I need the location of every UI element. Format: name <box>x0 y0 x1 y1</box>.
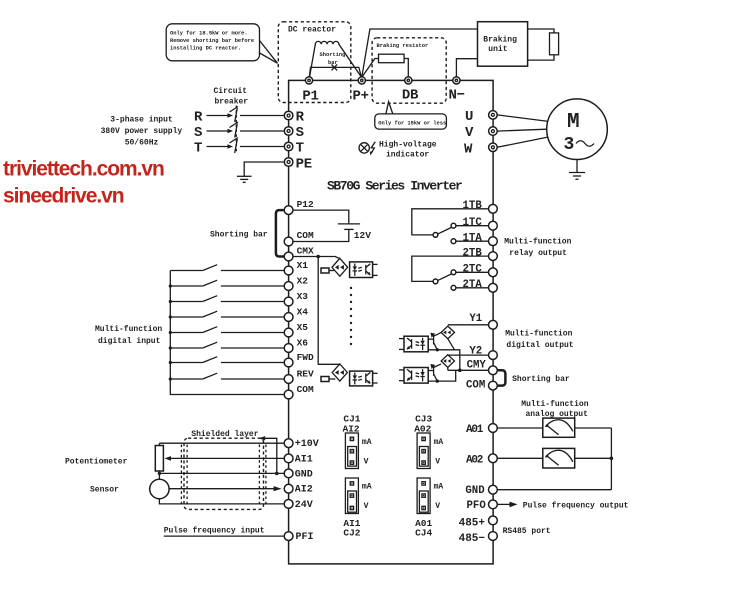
rectifier diamond Y1 <box>441 326 454 339</box>
terminal P1 <box>305 77 312 84</box>
label COM input <box>297 384 314 395</box>
terminal X1 <box>284 266 293 275</box>
svg-text:mA: mA <box>434 438 444 447</box>
rectifier diamond Y2 <box>441 355 454 368</box>
wire CMY row <box>448 369 489 371</box>
label 2TC <box>463 264 483 276</box>
junction Y2 emitter <box>436 379 439 382</box>
svg-text:X6: X6 <box>297 338 309 349</box>
svg-text:triviettech.com.vn: triviettech.com.vn <box>3 158 164 181</box>
terminal CMX <box>284 252 293 261</box>
terminal R <box>284 111 293 120</box>
wire GND return <box>497 489 611 491</box>
svg-text:485−: 485− <box>459 533 486 545</box>
svg-text:Only for 18.5kW or more.: Only for 18.5kW or more. <box>170 30 248 36</box>
terminal Y1 <box>489 320 498 329</box>
label Potentiometer <box>65 458 128 467</box>
label V <box>465 125 474 141</box>
label P+ <box>353 89 369 105</box>
svg-text:GND: GND <box>295 469 313 480</box>
pin stubs optocoupler Y2 <box>399 370 404 381</box>
terminal 485- <box>489 532 498 541</box>
terminal 1TA <box>489 237 498 246</box>
label 2TA <box>463 279 483 291</box>
shield dashed box <box>184 438 264 509</box>
wire P12 to battery <box>293 210 349 224</box>
svg-text:bar: bar <box>328 60 338 66</box>
svg-text:mA: mA <box>362 438 372 447</box>
label DC reactor <box>288 26 336 35</box>
label T at terminal <box>296 141 304 157</box>
label COM <box>297 230 314 241</box>
label PFO <box>467 500 487 512</box>
terminal CMY <box>489 366 498 375</box>
label PFI <box>296 532 314 543</box>
potentiometer <box>155 443 163 479</box>
jumper CJ2 block <box>345 478 371 514</box>
svg-text:X1: X1 <box>297 260 309 271</box>
wire motor to ground <box>576 160 578 173</box>
wire diamond Y2 to CMY <box>447 367 449 370</box>
svg-text:R: R <box>296 110 305 126</box>
svg-text:P1: P1 <box>302 89 318 105</box>
svg-text:RS485 port: RS485 port <box>503 527 551 536</box>
svg-text:AI1: AI1 <box>295 454 313 465</box>
terminal X3 <box>284 297 293 306</box>
junction CMY node <box>458 369 462 373</box>
motor M 3-phase <box>547 99 608 160</box>
junction Y1 emitter <box>436 348 439 351</box>
inverter main box SB70G <box>289 80 494 564</box>
jumper CJ4 block <box>417 478 443 514</box>
label RS485 port <box>503 527 551 536</box>
wire X1 to rectifier <box>329 270 334 272</box>
terminal 2TC <box>489 268 498 277</box>
digital input bus wire <box>170 271 284 395</box>
wire 2TC <box>456 271 489 273</box>
switch X6 <box>170 342 284 348</box>
label N- <box>449 88 465 104</box>
label Multi-function relay output <box>504 238 571 259</box>
label X1 <box>297 260 309 271</box>
wire V to motor <box>497 129 547 131</box>
svg-text:Potentiometer: Potentiometer <box>65 458 128 467</box>
relay 1 contact 1TA <box>451 239 456 244</box>
label X4 <box>297 307 309 318</box>
switch X3 <box>170 296 284 302</box>
label AI1 <box>295 454 313 465</box>
terminal AI2 <box>284 484 293 493</box>
label Pulse frequency output <box>523 502 629 511</box>
wire 24V row <box>159 499 284 504</box>
terminal 1TB <box>489 204 498 213</box>
terminal X4 <box>284 313 293 322</box>
svg-text:PE: PE <box>296 157 312 173</box>
svg-text:COM: COM <box>297 384 314 395</box>
terminal AO2 <box>489 454 498 463</box>
label 1TC <box>463 217 483 229</box>
svg-text:Braking resistor: Braking resistor <box>377 43 429 49</box>
wire PFO arrow <box>497 502 517 508</box>
label Shielded layer <box>191 430 258 439</box>
wire GND row <box>159 472 284 474</box>
svg-text:unit: unit <box>488 45 507 54</box>
svg-text:Remove shorting bar before: Remove shorting bar before <box>170 38 254 44</box>
wire 1TA <box>456 240 489 242</box>
svg-text:W: W <box>464 141 473 157</box>
svg-text:2TA: 2TA <box>463 279 483 291</box>
svg-text:2TB: 2TB <box>463 247 483 259</box>
relay 1 pivot contact <box>433 233 438 238</box>
shield ground arrow <box>259 436 277 473</box>
svg-text:V: V <box>435 502 440 511</box>
svg-text:digital input: digital input <box>98 337 161 346</box>
junction CMX node <box>316 255 320 259</box>
label CMX <box>297 245 314 256</box>
terminal COM control <box>284 237 293 246</box>
pin stubs optocoupler X1 <box>373 264 378 275</box>
svg-text:relay output: relay output <box>509 249 567 258</box>
terminal N- <box>453 77 460 84</box>
transistor Y1 <box>428 333 441 350</box>
wire U to motor <box>497 115 548 122</box>
wire PFI row <box>164 535 284 537</box>
label REV <box>297 369 314 380</box>
svg-text:High-voltage: High-voltage <box>379 141 437 150</box>
label Multi-function digital input <box>95 325 162 346</box>
relay 1 blade <box>438 228 452 234</box>
svg-text:Multi-function: Multi-function <box>95 325 162 334</box>
switch REV <box>170 373 284 379</box>
svg-text:mA: mA <box>434 482 444 491</box>
optocoupler X1 <box>350 262 373 278</box>
svg-text:Circuit: Circuit <box>214 87 248 96</box>
label X5 <box>297 322 309 333</box>
svg-text:CMX: CMX <box>297 245 314 256</box>
terminal PFO <box>489 500 498 509</box>
svg-text:12V: 12V <box>354 230 371 241</box>
terminal 485+ <box>489 516 498 525</box>
optocoupler Y1 <box>404 336 428 352</box>
shorting bar CMY-COM <box>497 370 505 385</box>
terminal 2TB <box>489 252 498 261</box>
terminal COM input <box>284 390 293 399</box>
watermark text triviettech.com.vn <box>3 158 164 181</box>
battery 12V <box>338 224 371 241</box>
svg-text:V: V <box>435 458 440 467</box>
svg-text:R: R <box>194 110 203 126</box>
wire CMX row <box>293 257 340 259</box>
label 24V <box>295 500 313 511</box>
terminal W <box>489 143 498 152</box>
resistor X1 input <box>321 268 329 273</box>
relay 1 contact 1TC <box>451 223 456 228</box>
label 1TB <box>463 200 483 212</box>
svg-text:S: S <box>194 125 202 141</box>
svg-text:REV: REV <box>297 369 314 380</box>
shorting bar P12-CMX <box>276 210 284 256</box>
svg-text:X5: X5 <box>297 322 309 333</box>
label AI2 <box>295 485 313 496</box>
dotted continuation X inputs <box>350 287 352 345</box>
svg-text:AI2: AI2 <box>295 485 313 496</box>
braking resistor dashed box <box>372 38 446 103</box>
svg-text:P12: P12 <box>297 199 314 210</box>
label DB <box>402 88 419 104</box>
meter AO2 <box>543 448 575 468</box>
label X3 <box>297 291 309 302</box>
terminal 2TA <box>489 283 498 292</box>
label AO2 <box>466 454 483 466</box>
svg-text:Shorting bar: Shorting bar <box>210 231 268 240</box>
label Y2 <box>469 345 482 357</box>
label Braking resistor <box>377 43 429 49</box>
switch X4 <box>170 311 284 317</box>
terminal X2 <box>284 282 293 291</box>
watermark text sineedrive.vn <box>3 185 124 208</box>
label P1 <box>302 89 318 105</box>
svg-text:Pulse frequency input: Pulse frequency input <box>164 526 265 535</box>
svg-text:Multi-function: Multi-function <box>505 329 572 338</box>
wire AI1 wiper with arrow <box>164 456 284 461</box>
svg-text:installing DC reactor.: installing DC reactor. <box>170 45 241 51</box>
relay 2 contact 2TA <box>451 285 456 290</box>
wire PE to ground <box>244 162 284 176</box>
svg-text:T: T <box>296 141 304 157</box>
svg-text:Multi-function: Multi-function <box>504 238 571 247</box>
svg-text:1TC: 1TC <box>463 217 483 229</box>
label +10V <box>295 439 319 450</box>
terminal S <box>284 127 293 136</box>
inductor DC reactor coil <box>310 41 362 77</box>
junction AO2 rail <box>610 457 614 461</box>
junction dots on input bus <box>169 284 172 380</box>
svg-text:V: V <box>364 502 369 511</box>
svg-text:GND: GND <box>465 485 484 497</box>
terminal P12 <box>284 206 293 215</box>
jumper CJ2 labels <box>343 518 360 539</box>
wire analog common rail <box>610 428 612 490</box>
shield cable end marks <box>181 445 266 507</box>
wire resistor bottom to braking unit <box>528 55 554 60</box>
svg-text:24V: 24V <box>295 500 313 511</box>
terminal T <box>284 142 293 151</box>
svg-text:DB: DB <box>402 88 419 104</box>
relay 1 wiring 1TB <box>412 209 489 235</box>
label 485- <box>459 533 486 545</box>
rectifier diamond X1 <box>332 258 348 276</box>
terminal +10V <box>284 439 293 448</box>
terminal FWD <box>284 358 293 367</box>
wire AO1 to meter <box>497 427 543 429</box>
wire CMX down to REV optocoupler <box>318 257 340 365</box>
svg-text:CJ4: CJ4 <box>415 527 432 538</box>
svg-text:SB70G Series Inverter: SB70G Series Inverter <box>327 179 462 194</box>
note callout: Only for 15kW or less <box>375 102 447 129</box>
label Y1 <box>469 313 482 325</box>
label 1TA <box>463 232 483 244</box>
terminal AO1 <box>489 424 498 433</box>
wire 2TA <box>456 287 489 289</box>
svg-text:FWD: FWD <box>297 352 314 363</box>
wire braking unit to resistor top <box>528 29 554 33</box>
wire braking unit to N- <box>456 59 477 77</box>
terminal X6 <box>284 344 293 353</box>
svg-text:X3: X3 <box>297 291 309 302</box>
optocoupler REV <box>350 371 373 386</box>
svg-text:Multi-function: Multi-function <box>521 400 588 409</box>
note callout: Only for 18.5kW or more <box>166 24 277 64</box>
wire diamond Y1 to bus <box>448 339 455 350</box>
terminal X5 <box>284 328 293 337</box>
terminal GND control <box>284 469 293 478</box>
svg-text:Pulse frequency output: Pulse frequency output <box>523 502 629 511</box>
wire battery to COM <box>293 229 349 241</box>
meter AO1 <box>543 418 575 437</box>
terminal REV <box>284 375 293 384</box>
relay 2 wiring 2TB <box>412 256 489 281</box>
svg-text:digital output: digital output <box>506 341 573 350</box>
label 3-phase input 380V power supply 50/60Hz <box>101 116 183 148</box>
high-voltage indicator lamp <box>359 141 437 160</box>
junction potentiometer GND <box>158 472 161 475</box>
svg-text:breaker: breaker <box>215 98 249 107</box>
wire AO2 to meter <box>497 457 543 459</box>
switch FWD <box>170 357 284 363</box>
svg-text:Y2: Y2 <box>469 345 482 357</box>
switch X1 <box>170 265 284 271</box>
label CMY <box>467 359 487 371</box>
jumper CJ3 labels <box>414 413 432 434</box>
optocoupler Y2 <box>404 368 428 384</box>
ground PE <box>237 176 252 182</box>
svg-text:Shielded layer: Shielded layer <box>191 430 258 439</box>
shorting bar between P1 and P+ <box>309 52 361 77</box>
wire AI2 row with arrow <box>169 486 282 491</box>
terminal P+ <box>358 77 365 84</box>
svg-text:Braking: Braking <box>483 35 517 44</box>
ground motor <box>569 173 585 180</box>
jumper CJ4 labels <box>415 518 432 539</box>
label R at terminal <box>296 110 305 126</box>
svg-text:2TC: 2TC <box>463 264 483 276</box>
svg-text:485+: 485+ <box>459 518 486 530</box>
label FWD <box>297 352 314 363</box>
terminal PE <box>284 158 293 167</box>
svg-text:M: M <box>567 111 580 134</box>
svg-text:PFI: PFI <box>296 532 314 543</box>
circuit breaker pole R <box>194 107 284 126</box>
jumper CJ1 block <box>345 433 371 469</box>
terminal DB <box>405 77 412 84</box>
svg-text:Shorting: Shorting <box>320 52 346 58</box>
terminal PFI <box>284 532 293 541</box>
wire P+ to braking resistor <box>362 59 379 78</box>
terminal Y2 <box>489 351 498 360</box>
transistor Y2 <box>428 364 441 381</box>
svg-text:COM: COM <box>297 230 314 241</box>
jumper CJ1 labels <box>343 413 361 434</box>
DC reactor dashed box <box>278 22 351 103</box>
label U <box>465 109 473 125</box>
label X2 <box>297 276 309 287</box>
svg-text:S: S <box>296 125 304 141</box>
svg-text:COM: COM <box>466 379 485 391</box>
switch X5 <box>170 327 284 333</box>
svg-text:50/60Hz: 50/60Hz <box>125 139 159 148</box>
svg-text:mA: mA <box>362 482 372 491</box>
svg-text:1TB: 1TB <box>463 200 483 212</box>
label COM output <box>466 379 485 391</box>
label W <box>464 141 473 157</box>
relay 2 pivot contact <box>433 279 438 284</box>
circuit breaker pole T <box>194 138 284 157</box>
svg-text:U: U <box>465 109 473 125</box>
label Multi-function analog output <box>521 400 588 419</box>
relay 2 blade <box>438 274 452 280</box>
pin stubs optocoupler Y1 <box>399 339 404 350</box>
svg-text:T: T <box>194 141 202 157</box>
svg-text:1TA: 1TA <box>463 232 483 244</box>
svg-text:Only for 15kW or less: Only for 15kW or less <box>378 120 446 126</box>
rectifier diamond REV <box>332 364 347 381</box>
braking unit box <box>478 22 528 66</box>
svg-text:Shorting bar: Shorting bar <box>512 375 570 384</box>
label AO1 <box>466 424 484 436</box>
svg-text:DC reactor: DC reactor <box>288 26 336 35</box>
circuit breaker pole S <box>194 122 284 141</box>
wire Y1 emitter bus <box>428 350 460 371</box>
wire W to motor <box>497 137 548 147</box>
label Shorting bar left <box>210 231 268 240</box>
wire meter AO2 to common rail <box>575 457 612 459</box>
svg-text:N−: N− <box>449 88 465 104</box>
svg-text:A01: A01 <box>466 424 484 436</box>
svg-text:CMY: CMY <box>467 359 487 371</box>
sensor circle <box>150 479 169 498</box>
junction shield to GND <box>275 472 279 476</box>
switch X2 <box>170 280 284 286</box>
label Pulse frequency input <box>164 526 265 535</box>
wire REV to rectifier <box>329 378 335 380</box>
svg-text:A02: A02 <box>466 454 483 466</box>
svg-text:Y1: Y1 <box>469 313 482 325</box>
svg-text:V: V <box>364 458 369 467</box>
label Shorting bar right <box>512 375 570 384</box>
svg-text:380V power supply: 380V power supply <box>101 127 183 136</box>
svg-text:3-phase input: 3-phase input <box>110 116 173 125</box>
circuit breaker linkage dashed <box>235 106 237 153</box>
resistor braking <box>379 54 405 63</box>
terminal AI1 <box>284 454 293 463</box>
svg-text:V: V <box>465 125 474 141</box>
wire braking resistor to DB <box>404 59 408 77</box>
wire +10V row <box>159 442 284 444</box>
label S at terminal <box>296 125 304 141</box>
svg-text:sineedrive.vn: sineedrive.vn <box>3 185 124 208</box>
label X6 <box>297 338 309 349</box>
wire 1TC <box>456 225 489 227</box>
label Circuit breaker <box>214 87 249 107</box>
svg-text:X4: X4 <box>297 307 309 318</box>
label PE at terminal <box>296 157 312 173</box>
svg-text:PFO: PFO <box>467 500 487 512</box>
label 2TB <box>463 247 483 259</box>
terminal 1TC <box>489 221 498 230</box>
label Sensor <box>90 485 119 494</box>
wire P+ to braking unit <box>362 29 478 77</box>
wire meter AO1 to common rail <box>575 427 612 429</box>
